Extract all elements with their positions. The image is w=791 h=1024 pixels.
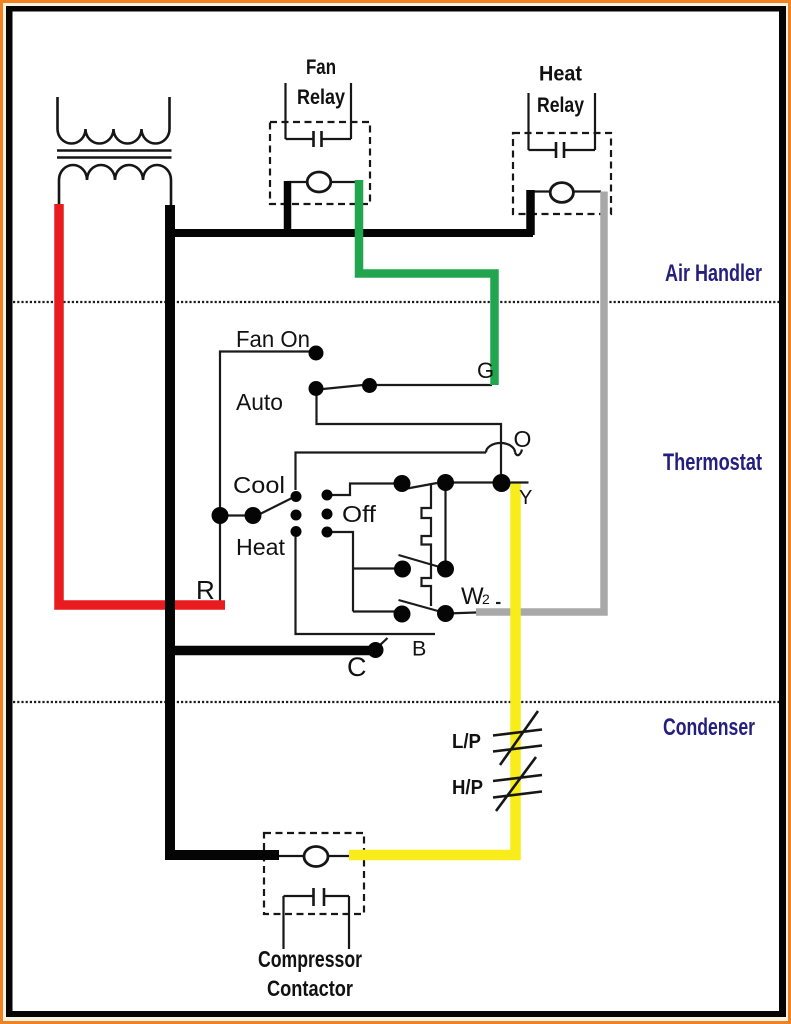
svg-text:Heat: Heat xyxy=(236,534,286,560)
svg-text:Heat: Heat xyxy=(539,63,582,86)
svg-text:2: 2 xyxy=(482,591,490,607)
svg-text:Auto: Auto xyxy=(236,389,283,415)
svg-text:Thermostat: Thermostat xyxy=(663,449,762,476)
svg-text:O: O xyxy=(514,426,532,452)
svg-text:Fan: Fan xyxy=(306,56,336,79)
svg-text:Relay: Relay xyxy=(537,94,584,117)
svg-text:R: R xyxy=(196,575,215,605)
svg-text:Contactor: Contactor xyxy=(267,976,353,1001)
svg-text:G: G xyxy=(477,358,494,383)
svg-text:Fan On: Fan On xyxy=(236,326,310,352)
svg-text:Air Handler: Air Handler xyxy=(665,260,762,287)
svg-text:W: W xyxy=(461,583,484,610)
svg-text:H/P: H/P xyxy=(452,777,483,799)
svg-text:L/P: L/P xyxy=(452,731,481,753)
svg-text:Off: Off xyxy=(342,501,377,527)
svg-text:C: C xyxy=(347,652,367,682)
svg-text:Y: Y xyxy=(519,487,532,509)
svg-text:B: B xyxy=(412,637,426,661)
svg-text:Condenser: Condenser xyxy=(663,714,755,741)
svg-text:Relay: Relay xyxy=(297,86,345,109)
svg-text:Cool: Cool xyxy=(233,472,285,498)
svg-text:Compressor: Compressor xyxy=(258,946,362,972)
